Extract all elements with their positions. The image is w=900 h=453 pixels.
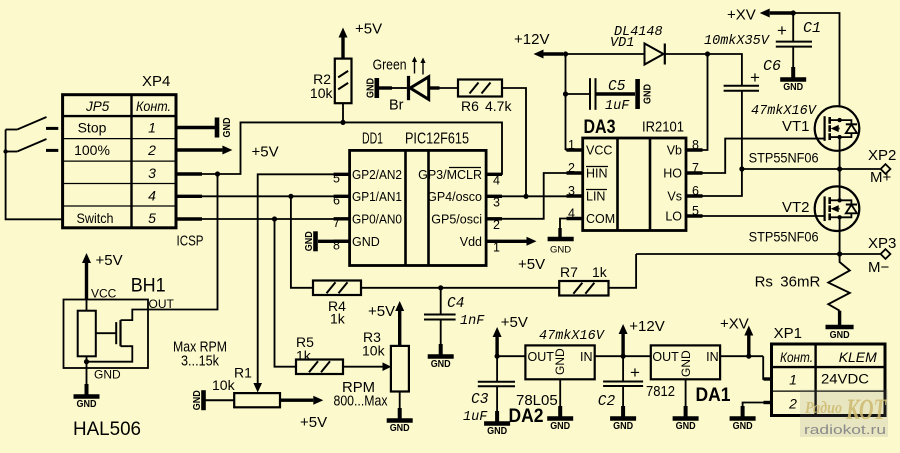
capacitor C1: [792, 13, 794, 42]
svg-text:800...Max: 800...Max: [334, 394, 389, 410]
svg-text:BH1: BH1: [131, 276, 166, 297]
potentiometer R3: [391, 346, 409, 392]
svg-text:1k: 1k: [330, 311, 346, 327]
wire DD1.8 gnd stub: [318, 240, 350, 243]
pin 2 DD1: [486, 217, 502, 220]
svg-text:4.7k: 4.7k: [485, 98, 512, 114]
svg-text:GND: GND: [613, 421, 633, 432]
watermark: [800, 390, 888, 438]
pin 8 DD1: [334, 240, 350, 243]
svg-text:Stop: Stop: [78, 120, 107, 136]
wire switch rail: [6, 130, 63, 220]
svg-text:GP0/AN0: GP0/AN0: [352, 212, 402, 226]
wire C6 to Vs/M+ node: [741, 91, 743, 169]
wire R2 +5V arrow: [341, 38, 344, 59]
svg-text:Конт.: Конт.: [780, 350, 813, 365]
svg-text:DA3: DA3: [584, 117, 616, 138]
svg-text:47mkX16V: 47mkX16V: [751, 104, 818, 119]
switch S1 (Stop): [6, 129, 18, 131]
ground LED cathode: [374, 78, 379, 98]
svg-text:VT1: VT1: [782, 118, 810, 135]
svg-text:4: 4: [148, 188, 156, 204]
node rail-S2: [3, 149, 7, 153]
node Rs: [837, 251, 842, 256]
capacitor C4: [440, 288, 442, 315]
svg-text:GND: GND: [550, 421, 570, 432]
svg-text:+12V: +12V: [629, 318, 664, 335]
svg-text:Vdd: Vdd: [460, 235, 482, 249]
svg-text:7812: 7812: [646, 383, 675, 400]
svg-text:+5V: +5V: [252, 144, 279, 161]
svg-text:1k: 1k: [296, 348, 312, 364]
wire GP0 branch to R5: [275, 219, 297, 367]
svg-text:GP4/osco: GP4/osco: [427, 190, 482, 204]
node R6-LIN: [523, 194, 528, 199]
wire VCC DA3 riser: [565, 54, 567, 150]
svg-text:GND: GND: [192, 390, 203, 410]
wire BH1 OUT to MCLR net: [148, 174, 218, 310]
svg-text:STP55NF06: STP55NF06: [749, 230, 819, 245]
svg-text:+: +: [777, 21, 787, 40]
ground DA2: [559, 405, 561, 407]
svg-text:10k: 10k: [362, 343, 386, 359]
svg-text:VCC: VCC: [586, 144, 612, 158]
svg-text:3: 3: [493, 195, 500, 209]
svg-text:10mkX35V: 10mkX35V: [704, 34, 771, 49]
node VT1-VT2: [837, 166, 842, 171]
resistor R6: [458, 80, 502, 97]
regulator DA1 7812 box: [651, 345, 720, 379]
pin 8 DA3: [686, 148, 703, 151]
wire GP1 branch to R4: [291, 196, 313, 287]
svg-text:Rs: Rs: [755, 274, 773, 291]
svg-text:M+: M+: [870, 169, 891, 186]
wire VT2 source to M-: [839, 217, 841, 254]
svg-text:C3: C3: [471, 392, 489, 408]
svg-text:Green: Green: [373, 57, 407, 73]
transistor VT2 (n-MOSFET): [815, 186, 860, 231]
pin 4 DD1: [486, 173, 502, 176]
IC DD1 PIC12F615 (microcontroller): [350, 150, 487, 265]
svg-text:+XV: +XV: [727, 7, 756, 24]
LED light arrow 1: [414, 62, 416, 74]
svg-text:DA2: DA2: [509, 406, 544, 427]
node C1: [791, 10, 796, 15]
svg-text:GP2/AN2: GP2/AN2: [352, 168, 402, 182]
wire C5 to gnd: [596, 92, 636, 95]
wire DA1.IN to XP1.1: [720, 355, 763, 357]
ground Rs bar: [826, 325, 854, 330]
svg-text:LIN: LIN: [586, 190, 605, 204]
svg-text:M−: M−: [868, 259, 889, 276]
wire Vb riser: [686, 54, 708, 150]
node GP0-R5: [272, 216, 277, 221]
svg-text:Vb: Vb: [667, 144, 682, 158]
svg-text:1uF: 1uF: [463, 410, 488, 425]
svg-text:PIC12F615: PIC12F615: [405, 131, 469, 148]
svg-text:+5V: +5V: [368, 303, 395, 320]
svg-text:GND: GND: [352, 235, 380, 249]
svg-text:XP2: XP2: [868, 147, 896, 164]
pin 1 DA3: [567, 148, 583, 151]
svg-text:4: 4: [493, 173, 500, 187]
wire XP4.2 +5V arrow: [176, 148, 222, 151]
ground DA1: [685, 405, 687, 407]
svg-text:C1: C1: [803, 20, 821, 37]
svg-text:GND: GND: [77, 399, 97, 410]
ground XP4 pin1: [215, 118, 220, 138]
svg-text:C6: C6: [763, 58, 781, 75]
svg-text:JP5: JP5: [85, 99, 110, 114]
wire gnd-R1: [206, 399, 235, 401]
svg-text:VCC: VCC: [91, 287, 117, 301]
wire DA1 gnd: [685, 379, 687, 406]
svg-text:GND: GND: [679, 350, 693, 377]
resistor inside BH1: [86, 300, 88, 311]
resistor Rs 36mR zigzag: [828, 254, 850, 311]
sensor BH1 HAL506 box: [64, 300, 149, 369]
svg-text:10k: 10k: [310, 85, 334, 101]
ground DD1 pin8: [313, 231, 318, 251]
svg-text:1nF: 1nF: [460, 314, 485, 329]
svg-text:1: 1: [568, 138, 575, 152]
wire R7 to M- line: [609, 254, 637, 288]
svg-text:1: 1: [493, 240, 500, 254]
ground R1: [201, 390, 206, 410]
svg-text:+5V: +5V: [501, 314, 528, 331]
svg-text:OUT: OUT: [149, 297, 175, 311]
svg-text:100%: 100%: [74, 142, 110, 158]
wire COM to ground: [560, 219, 583, 229]
pin 3 DA3: [567, 194, 583, 197]
svg-text:R7: R7: [560, 264, 578, 280]
pin 7 DA3: [686, 171, 703, 174]
svg-text:IN: IN: [706, 350, 719, 364]
wire XP4.1 to GND: [176, 126, 215, 129]
svg-text:GND: GND: [94, 368, 121, 382]
pin 1 DD1: [486, 240, 502, 243]
svg-text:+12V: +12V: [514, 31, 549, 48]
svg-text:1: 1: [789, 372, 797, 388]
node C3/+5V: [495, 354, 500, 359]
capacitor C2: [622, 356, 624, 381]
svg-text:+: +: [630, 363, 640, 382]
svg-text:КОТ: КОТ: [845, 393, 887, 426]
svg-text:1uF: 1uF: [605, 99, 630, 114]
wire BH1 gnd: [86, 368, 88, 384]
wire VT1 source to M+: [839, 137, 841, 169]
pin 4 DA3: [567, 217, 583, 220]
wire M- line: [636, 253, 880, 255]
svg-text:1: 1: [148, 120, 156, 136]
IC DA3 IR2101 (gate driver): [583, 138, 686, 231]
svg-text:IR2101: IR2101: [642, 119, 684, 136]
svg-text:GND: GND: [365, 78, 376, 98]
svg-text:GND: GND: [487, 426, 507, 437]
svg-text:GND: GND: [390, 423, 410, 434]
node GP1-R4: [288, 194, 293, 199]
wire R2 to MCLR net: [342, 103, 344, 122]
svg-text:Switch: Switch: [77, 210, 114, 226]
svg-text:+: +: [750, 68, 760, 87]
wire VT2 drain: [839, 169, 841, 200]
svg-text:R6: R6: [461, 98, 479, 114]
svg-text:DA1: DA1: [696, 385, 731, 406]
resistor R7: [559, 281, 608, 296]
pin 5 DD1: [334, 173, 350, 176]
node Vs/M+: [739, 166, 744, 171]
svg-text:XP4: XP4: [142, 73, 170, 90]
svg-text:KLEM: KLEM: [839, 349, 877, 365]
svg-text:HO: HO: [663, 167, 682, 181]
wire BH1 +5V arrow: [85, 263, 88, 300]
svg-text:GND: GND: [733, 421, 753, 432]
svg-text:GND: GND: [553, 348, 567, 375]
node +XV in: [746, 354, 751, 359]
svg-text:XP3: XP3: [868, 235, 896, 252]
pin 6 DD1: [334, 195, 350, 198]
svg-text:ICSP: ICSP: [177, 233, 204, 250]
svg-text:STP55NF06: STP55NF06: [749, 151, 819, 166]
svg-text:Br: Br: [389, 98, 404, 114]
svg-text:3...15k: 3...15k: [181, 354, 220, 370]
wire sense line R4-R7: [361, 287, 559, 289]
node +12V: [563, 51, 568, 56]
wire Vdd +5V arrow: [502, 240, 527, 243]
wire M+ line: [742, 168, 880, 170]
LED Br (Green): [407, 76, 410, 100]
svg-text:+5V: +5V: [355, 21, 382, 38]
wire XP4.3 (Vpp/MCLR net): [176, 172, 202, 175]
wire HO to VT1 gate: [686, 139, 825, 173]
wire XP4.4 to GP1/AN1: [176, 195, 202, 198]
svg-text:IN: IN: [580, 350, 593, 364]
svg-text:GND: GND: [830, 330, 850, 341]
ground XP1.2: [742, 405, 744, 407]
capacitor C6: [724, 85, 759, 87]
svg-text:7: 7: [333, 216, 340, 230]
svg-text:GND: GND: [550, 245, 571, 256]
resistor R5: [296, 360, 343, 375]
svg-text:+5V: +5V: [96, 252, 123, 269]
svg-text:GP3/MCLR: GP3/MCLR: [418, 168, 482, 182]
wire GP4 to LIN: [502, 195, 583, 197]
svg-text:2: 2: [493, 218, 500, 232]
node C4: [438, 285, 443, 290]
svg-text:C4: C4: [447, 296, 464, 312]
potentiometer R1: [234, 393, 280, 407]
capacitor C5: [566, 93, 591, 95]
LED light arrow 2: [422, 63, 424, 75]
wire XP1.2 to gnd: [764, 401, 772, 404]
wire +XV to VT1 drain: [793, 13, 839, 106]
svg-text:Конт.: Конт.: [136, 99, 171, 114]
svg-text:GND: GND: [431, 359, 451, 370]
svg-text:36mR: 36mR: [780, 274, 820, 291]
regulator DA2 78L05 box: [497, 355, 525, 357]
svg-text:2: 2: [788, 396, 797, 412]
ground DA3 COM bar: [548, 237, 574, 242]
wire LO to VT2 gate: [686, 215, 825, 217]
wire LED anode to R6: [430, 86, 440, 89]
connector XP2: [881, 164, 891, 174]
svg-text:GND: GND: [304, 231, 315, 251]
wire gnd to LED: [378, 86, 392, 89]
svg-text:10k: 10k: [212, 377, 236, 393]
ground C2: [622, 405, 624, 407]
ground C5: [635, 79, 640, 109]
svg-text:LO: LO: [665, 210, 682, 224]
svg-text:47mkX16V: 47mkX16V: [539, 329, 606, 344]
wire +5V arrow at C3: [495, 337, 498, 356]
resistor R4: [313, 281, 361, 296]
svg-text:2: 2: [147, 142, 156, 158]
wire diode cathode to C6/Vb: [665, 54, 742, 86]
svg-text:Vs: Vs: [667, 190, 682, 204]
svg-text:OUT: OUT: [652, 350, 679, 364]
svg-text:24VDC: 24VDC: [821, 372, 869, 387]
pin 5 DA3: [686, 214, 703, 217]
ground C1: [792, 66, 794, 68]
svg-text:GND: GND: [222, 118, 233, 138]
wire R3 +5V arrow: [398, 311, 401, 346]
svg-text:+5V: +5V: [518, 256, 545, 273]
capacitor C3: [496, 356, 498, 382]
pin 6 DA3: [686, 194, 703, 197]
node Vb: [705, 51, 710, 56]
svg-text:radiokot.ru: radiokot.ru: [804, 423, 886, 437]
pin 3 DD1: [486, 195, 502, 198]
pin 7 DD1: [334, 217, 350, 220]
svg-text:1k: 1k: [592, 264, 608, 280]
svg-text:VD1: VD1: [610, 36, 634, 51]
svg-text:+5V: +5V: [300, 414, 327, 431]
ground BH1: [86, 383, 88, 385]
wire R6 to GP4/LIN net: [502, 88, 526, 196]
svg-text:XP1: XP1: [774, 325, 802, 342]
wire Vs riser: [686, 169, 742, 196]
svg-text:GND: GND: [783, 82, 803, 93]
wire R1 +5V arrow: [280, 399, 313, 402]
node C5: [563, 91, 568, 96]
svg-text:HIN: HIN: [586, 167, 608, 181]
svg-text:5: 5: [148, 210, 156, 226]
svg-text:DD1: DD1: [362, 131, 383, 148]
wire +XV arrow at DA1: [747, 336, 750, 357]
pin 2 DA3: [567, 171, 583, 174]
node BH1 internal: [84, 359, 89, 364]
resistor R2: [335, 59, 352, 104]
connector XP3: [881, 249, 891, 259]
svg-text:OUT: OUT: [528, 350, 555, 364]
ground R3: [399, 407, 401, 409]
wire +12V arrow: [544, 52, 564, 55]
node C2/+12V: [621, 354, 626, 359]
svg-text:GP1/AN1: GP1/AN1: [352, 190, 402, 204]
svg-text:GND: GND: [676, 421, 696, 432]
diode VD1 DL4148: [566, 53, 645, 55]
node BH1-out junction: [215, 171, 220, 176]
ground C4: [440, 343, 442, 345]
svg-text:VT2: VT2: [782, 199, 810, 216]
wire DA2.IN to DA1.OUT: [595, 355, 651, 357]
node R2-MCLR: [340, 120, 345, 125]
svg-text:3: 3: [148, 165, 156, 181]
switch S2 (100%): [6, 151, 18, 153]
svg-text:COM: COM: [586, 212, 615, 226]
wire +12V arrow at C2: [621, 334, 624, 356]
ground C3: [496, 410, 498, 412]
wire GP2 to R1 wiper: [258, 174, 350, 384]
svg-text:GP5/osci: GP5/osci: [431, 212, 482, 226]
svg-text:HAL506: HAL506: [73, 419, 141, 440]
transistor inside BH1: [96, 332, 116, 334]
svg-text:R1: R1: [234, 365, 252, 381]
wire R5 to R3 wiper arrow: [343, 366, 383, 368]
wire GP5 to HIN: [502, 173, 583, 219]
svg-text:+XV: +XV: [720, 316, 749, 333]
wire DA2 gnd: [559, 379, 561, 406]
svg-text:Радио: Радио: [804, 398, 842, 417]
wire R3 to gnd: [399, 392, 401, 409]
svg-text:C2: C2: [598, 394, 616, 410]
svg-text:6: 6: [333, 193, 340, 207]
wire XP4.5 to GP0/AN0: [176, 217, 202, 220]
svg-text:GND: GND: [643, 84, 654, 104]
svg-text:C5: C5: [608, 79, 626, 95]
wire +XV arrow: [770, 11, 794, 14]
transistor VT1 (n-MOSFET): [815, 106, 860, 151]
